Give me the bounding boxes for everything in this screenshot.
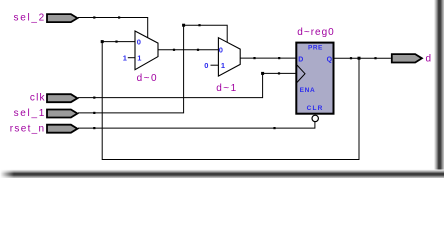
- svg-text:rset_n: rset_n: [10, 123, 46, 134]
- svg-text:0: 0: [137, 38, 141, 47]
- svg-text:d~reg0: d~reg0: [297, 27, 334, 38]
- svg-text:d: d: [426, 53, 432, 64]
- svg-text:d~1: d~1: [216, 83, 237, 94]
- svg-text:1: 1: [221, 61, 225, 70]
- svg-text:d~0: d~0: [137, 73, 158, 84]
- svg-text:CLR: CLR: [307, 105, 324, 112]
- svg-text:clk: clk: [30, 93, 46, 104]
- svg-text:PRE: PRE: [308, 45, 323, 52]
- svg-text:0: 0: [204, 61, 208, 70]
- svg-text:D: D: [298, 56, 303, 63]
- svg-text:sel_1: sel_1: [14, 108, 46, 119]
- svg-text:1: 1: [137, 53, 141, 62]
- svg-text:0: 0: [219, 46, 223, 55]
- svg-text:sel_2: sel_2: [14, 13, 46, 24]
- svg-text:ENA: ENA: [300, 87, 316, 94]
- svg-text:1: 1: [123, 53, 127, 62]
- svg-text:Q: Q: [327, 56, 333, 63]
